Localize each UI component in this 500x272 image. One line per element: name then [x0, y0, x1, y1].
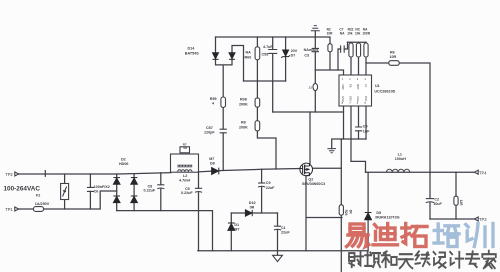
svg-text:TP3: TP3 — [479, 217, 487, 222]
svg-text:100nF/X2: 100nF/X2 — [94, 185, 110, 189]
svg-text:4.7uF: 4.7uF — [263, 45, 273, 49]
svg-text:D7: D7 — [291, 53, 296, 57]
svg-text:R8: R8 — [241, 121, 246, 125]
svg-text:L1: L1 — [398, 152, 402, 156]
svg-text:100R: 100R — [362, 32, 370, 36]
svg-text:D2: D2 — [121, 157, 126, 161]
svg-text:R08: R08 — [240, 98, 247, 102]
svg-text:L2: L2 — [183, 174, 187, 178]
svg-text:12R: 12R — [459, 200, 463, 207]
svg-text:200K: 200K — [239, 126, 248, 130]
svg-text:22uF: 22uF — [281, 231, 290, 235]
svg-text:SPU04N60C3: SPU04N60C3 — [302, 182, 325, 186]
svg-text:C1: C1 — [281, 226, 286, 230]
svg-text:20V: 20V — [291, 49, 298, 53]
svg-text:TP4: TP4 — [479, 170, 487, 175]
svg-text:GND: GND — [341, 96, 345, 102]
svg-text:J1: J1 — [309, 86, 313, 90]
svg-text:BAT54S: BAT54S — [185, 52, 199, 56]
svg-text:C2: C2 — [434, 198, 439, 202]
svg-text:10R: 10R — [389, 55, 396, 59]
svg-text:R59: R59 — [210, 97, 217, 101]
svg-text:D8: D8 — [210, 161, 215, 165]
svg-text:CL: CL — [364, 84, 368, 88]
svg-text:NAmade: NAmade — [304, 48, 319, 52]
svg-text:22uF: 22uF — [266, 186, 275, 190]
svg-text:4.7mH: 4.7mH — [179, 179, 190, 183]
svg-text:MURA110T3G: MURA110T3G — [375, 216, 399, 220]
svg-text:C3: C3 — [304, 54, 309, 58]
svg-text:100-264VAC: 100-264VAC — [4, 186, 41, 193]
svg-text:C58: C58 — [262, 52, 269, 56]
svg-text:R6: R6 — [390, 50, 395, 54]
svg-text:TP1: TP1 — [5, 207, 13, 212]
svg-text:0R: 0R — [349, 210, 353, 215]
svg-text:C9: C9 — [266, 181, 271, 185]
svg-text:TP2: TP2 — [5, 172, 13, 177]
svg-text:R23: R23 — [344, 210, 348, 216]
svg-text:D5: D5 — [376, 211, 381, 215]
svg-text:NA: NA — [340, 32, 345, 36]
svg-text:120pF: 120pF — [204, 130, 215, 134]
svg-text:200K: 200K — [239, 103, 248, 107]
svg-text:HD06: HD06 — [119, 162, 128, 166]
svg-text:U1: U1 — [375, 84, 380, 88]
svg-text:F2: F2 — [36, 193, 40, 197]
svg-text:10R: 10R — [327, 32, 334, 36]
svg-text:100uH: 100uH — [395, 157, 406, 161]
svg-text:0R: 0R — [250, 205, 255, 209]
svg-text:M7: M7 — [234, 228, 239, 232]
svg-text:ZCD: ZCD — [364, 96, 368, 101]
svg-text:C6: C6 — [94, 190, 99, 194]
svg-text:DRV: DRV — [349, 96, 353, 102]
svg-text:0.22uF: 0.22uF — [144, 189, 156, 193]
svg-text:Q2: Q2 — [308, 177, 313, 181]
svg-text:10k: 10k — [355, 32, 361, 36]
svg-text:VDD: VDD — [341, 84, 345, 90]
svg-text:C57: C57 — [206, 126, 213, 130]
svg-text:0.22uF: 0.22uF — [181, 191, 193, 195]
svg-text:D1: D1 — [234, 223, 239, 227]
svg-text:MOT: MOT — [356, 84, 360, 90]
svg-text:R60: R60 — [245, 56, 252, 60]
svg-text:FB: FB — [349, 84, 353, 88]
svg-text:D14: D14 — [188, 46, 196, 50]
svg-text:UCC28610D: UCC28610D — [374, 90, 395, 94]
svg-text:10uF: 10uF — [433, 202, 442, 206]
svg-text:VGG: VGG — [356, 96, 360, 102]
svg-text:NA: NA — [246, 51, 252, 55]
svg-text:1uF: 1uF — [363, 129, 370, 133]
svg-text:1A/250V: 1A/250V — [35, 202, 50, 206]
svg-text:M7: M7 — [209, 157, 214, 161]
svg-text:10k: 10k — [347, 32, 353, 36]
